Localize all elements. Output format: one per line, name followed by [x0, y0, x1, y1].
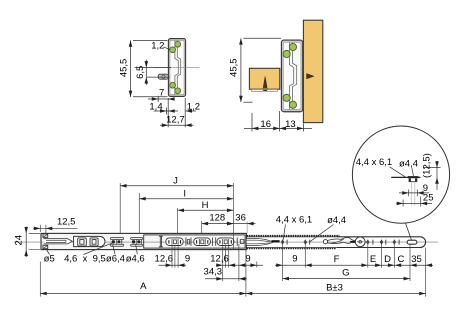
- svg-text:7: 7: [159, 87, 164, 98]
- ball top left: [170, 47, 176, 53]
- rail centerline: [14, 241, 438, 243]
- profile outer channel: [168, 39, 185, 97]
- dim 7: [148, 98, 175, 100]
- slot feature 1 caps: [110, 238, 123, 240]
- latch roller outer: [355, 237, 365, 247]
- G arrows: [283, 277, 289, 281]
- strip under block: [252, 89, 278, 91]
- dim I line: [139, 198, 233, 200]
- 9-3 left outside arrow: [276, 263, 282, 267]
- 12,5 arrows outside: [34, 227, 40, 231]
- inner member edges under bands: [247, 237, 337, 248]
- 1,2 bottom arrow: [186, 109, 192, 113]
- C/35 shared: [410, 263, 416, 267]
- svg-text:C: C: [397, 254, 404, 265]
- dim 45,5 right view: [240, 38, 242, 102]
- dims 16 / 13: [251, 113, 253, 132]
- mid slot 2: [194, 238, 211, 246]
- ball bottom left: [170, 82, 176, 88]
- svg-text:4,4 x 6,1: 4,4 x 6,1: [276, 214, 312, 225]
- slot feature 2 caps: [131, 238, 143, 240]
- serrated retainer band top: [247, 235, 340, 237]
- slot bottom line: [409, 181, 418, 183]
- serrated retainer band bottom: [247, 247, 336, 249]
- svg-text:1,2: 1,2: [187, 101, 200, 112]
- leader 4,4x6,1: [390, 167, 407, 178]
- dim 25 detail: [397, 197, 433, 207]
- svg-text:45,5: 45,5: [119, 59, 130, 78]
- leader o5: [47, 250, 50, 255]
- latch roller hole: [359, 241, 362, 244]
- 36 arrows outside: [227, 222, 233, 226]
- leader 4,6x9,5: [84, 242, 115, 254]
- 12,6-2 arrows outside: [216, 263, 222, 267]
- dim 6,5: [135, 67, 172, 69]
- hole ticks right d: [382, 240, 386, 245]
- svg-text:9: 9: [292, 254, 297, 265]
- dim 12,7: [167, 98, 169, 127]
- 6,5 arrows outside: [145, 61, 149, 67]
- A arrows: [40, 292, 46, 296]
- svg-text:16: 16: [260, 119, 271, 130]
- svg-text:B±3: B±3: [326, 283, 343, 294]
- dim line row1 seg2: [216, 264, 263, 266]
- leader o4,4: [310, 225, 334, 242]
- svg-text:9: 9: [245, 254, 250, 265]
- rail edge line in detail: [391, 176, 420, 178]
- svg-text:12,5: 12,5: [57, 217, 76, 228]
- 45,5 arrows: [129, 40, 133, 46]
- ext below holes cluster2: [223, 245, 229, 282]
- svg-text:ø4,4: ø4,4: [399, 158, 418, 169]
- ext rail end right: [425, 248, 427, 297]
- dim H line: [178, 209, 234, 211]
- wood block (drawer): [249, 68, 279, 89]
- dim 34,3 line: [205, 278, 247, 280]
- svg-text:12,6: 12,6: [155, 254, 174, 265]
- 128 arrows: [202, 222, 208, 226]
- slot wall extension band: [411, 182, 415, 206]
- dim 9 detail: [399, 190, 429, 197]
- dim (12,5): [424, 161, 441, 190]
- 35 right: [426, 263, 432, 267]
- fork wedge: [247, 238, 273, 245]
- latch lever lower outline: [327, 242, 351, 243]
- middle member band: [144, 235, 245, 248]
- 9-2 arrows inside: [239, 263, 245, 267]
- svg-text:34,3: 34,3: [204, 266, 223, 277]
- svg-text:F: F: [334, 254, 340, 265]
- 1,4 arrows outside: [160, 109, 166, 113]
- bracket hole 1: [78, 238, 87, 246]
- slot cap: [408, 176, 419, 178]
- connector line to slot: [405, 223, 411, 240]
- svg-text:(12,5): (12,5): [422, 153, 433, 178]
- 12,6-1 arrows outside: [166, 263, 172, 267]
- ext 12,5 ticks: [40, 225, 46, 234]
- hole tick pair b: [305, 240, 309, 245]
- end features of middle member: [237, 238, 244, 246]
- hole ticks right c: [394, 240, 399, 245]
- dim A-B line: [40, 293, 425, 295]
- svg-text:4,4 x 6,1: 4,4 x 6,1: [356, 157, 392, 168]
- B arrows: [246, 292, 252, 296]
- bracket pair 1: [186, 238, 191, 246]
- svg-text:12,7: 12,7: [166, 115, 185, 126]
- svg-text:ø4,6: ø4,6: [126, 253, 145, 264]
- svg-text:25: 25: [423, 193, 434, 204]
- svg-text:12,6: 12,6: [210, 254, 229, 265]
- slot 1 hole o4,6: [118, 240, 121, 243]
- dim G line: [283, 278, 410, 280]
- black hatch mark: [271, 240, 279, 242]
- 34,3 arrows outside: [216, 277, 222, 281]
- svg-text:A: A: [140, 281, 147, 292]
- dim line row1 seg3: [275, 264, 433, 266]
- svg-text:24: 24: [14, 235, 25, 246]
- svg-text:J: J: [173, 176, 178, 187]
- profile cross-section (scaled copy): [281, 40, 302, 112]
- dim 128 line: [202, 223, 234, 225]
- leader o4,4: [412, 168, 414, 176]
- ext H left: [177, 208, 179, 233]
- svg-text:9: 9: [185, 254, 190, 265]
- svg-text:1,4: 1,4: [149, 101, 162, 112]
- label 1,2 top with leader: [164, 47, 170, 50]
- ext 9-3 left long: [282, 245, 284, 281]
- svg-text:4,6 x 9,5: 4,6 x 9,5: [64, 254, 106, 265]
- dim 12,5 line: [33, 227, 78, 229]
- 12,7 arrows outside: [162, 123, 168, 127]
- screw in panel: [307, 74, 314, 79]
- slot 2 hole o6,4: [132, 240, 135, 243]
- ball bottom right: [175, 88, 181, 94]
- ext 9-3 right: [304, 245, 306, 268]
- ext shared right: [232, 183, 234, 250]
- dim 1,2 bottom: [186, 110, 196, 112]
- slot walls: [409, 178, 411, 182]
- svg-text:E: E: [370, 254, 376, 265]
- ext slot center long: [409, 244, 411, 281]
- inner member right part: [337, 237, 426, 248]
- latch lever upper outline: [327, 238, 355, 241]
- ext D: [381, 245, 383, 268]
- wood panel (cabinet side): [303, 20, 322, 122]
- svg-text:I: I: [183, 189, 186, 200]
- detail circle outline: [352, 126, 449, 223]
- svg-text:H: H: [202, 200, 209, 211]
- svg-text:ø5: ø5: [44, 253, 55, 264]
- slot 2 hole o4,6: [137, 240, 140, 243]
- 24 arrows outside: [24, 227, 28, 233]
- svg-text:ø6,4: ø6,4: [106, 253, 125, 264]
- dim 24 line: [25, 227, 27, 258]
- latch black bar: [350, 241, 355, 243]
- ext E: [367, 245, 369, 268]
- 7 arrows outside: [152, 97, 158, 101]
- H arrows: [178, 209, 184, 213]
- ext 9-2 right tick: [256, 262, 258, 268]
- ext heavy 34,3 right: [238, 244, 240, 281]
- slot 1 hole o6,4: [112, 240, 115, 243]
- ext 24: [29, 233, 40, 249]
- bracket hole 2: [90, 238, 98, 246]
- rivet tab: [158, 74, 168, 79]
- dim J line: [120, 185, 233, 187]
- latch pivot ring: [323, 240, 327, 244]
- dim line row1 seg1: [159, 264, 187, 266]
- J arrows: [120, 184, 126, 188]
- dim 36 line: [226, 223, 256, 225]
- svg-text:35: 35: [411, 254, 422, 265]
- mid slot 3: [217, 238, 234, 246]
- ext C: [393, 245, 395, 268]
- latch lever crossing line: [330, 239, 344, 243]
- bracket pair 2: [213, 238, 216, 246]
- mid slot 1: [166, 238, 183, 246]
- I arrows: [139, 197, 145, 201]
- I bar: [159, 236, 163, 247]
- svg-text:1,2: 1,2: [151, 41, 164, 52]
- 9-3/F shared: [305, 263, 311, 267]
- ext below holes 12,6-9 cluster1: [172, 245, 178, 268]
- ext A-B shared: [245, 250, 247, 297]
- outer member body: [41, 233, 246, 249]
- profile inner S-channel: [170, 40, 184, 94]
- ext A left: [39, 262, 41, 297]
- tongue: [44, 239, 73, 244]
- dim 45,5 vertical line: [130, 40, 132, 97]
- ext J left: [119, 183, 121, 233]
- leader 4,4x6,1: [283, 225, 286, 241]
- ext 128 left: [201, 221, 203, 233]
- svg-text:G: G: [342, 268, 349, 279]
- screw in block: [263, 77, 267, 88]
- front bracket: [74, 236, 105, 246]
- centerline: [154, 67, 200, 69]
- mounting square hole top left: [43, 234, 48, 238]
- svg-text:ø4,4: ø4,4: [327, 215, 346, 226]
- leader o6,4: [113, 245, 115, 254]
- dim 1,4: [154, 110, 179, 112]
- hole ticks right e: [368, 240, 373, 245]
- ext I left: [138, 193, 140, 233]
- E/D shared: [375, 263, 381, 267]
- F/E shared: [361, 263, 367, 267]
- end slot: [407, 240, 417, 244]
- svg-text:36: 36: [235, 212, 246, 223]
- svg-text:6,5: 6,5: [135, 66, 146, 79]
- D/C shared: [388, 263, 394, 267]
- svg-text:45,5: 45,5: [229, 58, 240, 77]
- ext 36 right: [246, 222, 248, 234]
- leader o4,6: [136, 244, 138, 254]
- svg-text:D: D: [384, 254, 391, 265]
- hole tick pair a: [283, 240, 288, 245]
- ball top right: [175, 41, 181, 47]
- svg-text:128: 128: [209, 212, 225, 223]
- mounting square hole bottom left: [43, 245, 48, 249]
- svg-text:13: 13: [285, 119, 296, 130]
